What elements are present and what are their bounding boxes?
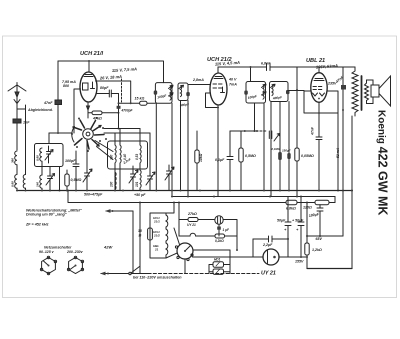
rail dots	[139, 202, 308, 204]
svg-text:UCH 21/I: UCH 21/I	[80, 51, 103, 57]
wire antenna to bus	[16, 188, 18, 190]
svg-text:65V: 65V	[316, 237, 323, 241]
gang dashed line	[121, 79, 123, 102]
UBL grid wire	[288, 90, 304, 92]
junction dot	[250, 66, 252, 68]
resistor 0.05M grid leak	[295, 90, 299, 197]
svg-text:90–125 v: 90–125 v	[39, 250, 55, 254]
svg-text:47nF: 47nF	[43, 101, 53, 105]
svg-text:26 V, 18 mA: 26 V, 18 mA	[99, 74, 122, 81]
svg-text:100pF: 100pF	[157, 93, 168, 99]
IF1 top lead	[163, 61, 165, 83]
tube UBL21 envelope	[311, 73, 327, 103]
capacitor 0.1uF	[227, 131, 233, 191]
svg-text:100pF: 100pF	[65, 159, 76, 163]
junction dot	[342, 109, 344, 111]
speaker wires	[367, 80, 374, 104]
UBL diode plates	[313, 93, 325, 96]
choke HD1	[213, 262, 224, 267]
svg-text:6,8kΩ: 6,8kΩ	[286, 207, 296, 211]
svg-text:+: +	[296, 227, 299, 232]
svg-text:42W: 42W	[103, 245, 113, 250]
resistor 27k	[188, 218, 215, 222]
junction dot	[337, 190, 339, 192]
IF1 cap blob	[154, 91, 158, 95]
svg-text:21: 21	[154, 248, 159, 252]
svg-text:UY 21: UY 21	[187, 223, 196, 227]
title Koenig 422 GW MK vertical	[376, 110, 390, 215]
electrolytic cap det x280	[278, 102, 282, 191]
junction dot	[254, 130, 256, 132]
capacitor 4700pF	[117, 106, 121, 109]
selector output wires	[193, 250, 254, 257]
svg-text:27kΩ: 27kΩ	[187, 212, 197, 216]
svg-text:800: 800	[63, 84, 69, 88]
page scan border	[3, 36, 397, 298]
svg-text:+: +	[284, 227, 287, 232]
IF1 coil with core arrows	[169, 85, 174, 100]
trimmer right of coils	[146, 133, 155, 191]
capacitor 1nF antenna	[13, 119, 21, 123]
junction dot	[287, 238, 289, 240]
heater chain bumps	[166, 213, 168, 258]
svg-text:0,53: 0,53	[135, 154, 139, 160]
UBL bottom lead	[318, 102, 320, 191]
input bandfilter box	[35, 144, 64, 167]
svg-text:+ 50µF: + 50µF	[292, 219, 304, 223]
heater diagonal 2	[174, 228, 180, 245]
svg-text:6,8nF: 6,8nF	[261, 62, 271, 66]
mains wire 2 with arrow and switch	[100, 267, 259, 276]
choke wires	[209, 250, 230, 274]
lower coil	[40, 175, 42, 191]
tube2 cathode	[221, 87, 225, 93]
Netzumschalter hexagon 90-125V	[40, 256, 56, 274]
osc resistor 1k	[195, 150, 199, 191]
svg-text:200–230v: 200–230v	[66, 250, 84, 254]
bus y196	[172, 196, 335, 198]
trimmer cap in box	[45, 146, 53, 163]
IF2a cap blob	[244, 91, 248, 95]
wire left drop x58	[57, 61, 59, 133]
right frame vertical x343 lower	[342, 191, 344, 237]
resistor 1.2k drop	[305, 203, 309, 269]
svg-text:150µF: 150µF	[282, 149, 291, 153]
output transformer secondary	[365, 83, 369, 101]
antenna coil L1	[15, 151, 17, 165]
junction dot	[256, 130, 258, 132]
capacitor 6.8nF	[267, 64, 271, 71]
svg-text:0,1µF: 0,1µF	[215, 158, 225, 162]
electrolytic 50uF a	[285, 197, 291, 240]
svg-text:2,2µF: 2,2µF	[262, 243, 273, 247]
switch to osc wires	[104, 129, 150, 134]
junction dots	[300, 235, 321, 258]
svg-text:400pF: 400pF	[272, 95, 284, 101]
junction dot	[244, 130, 246, 132]
tube1 anode	[84, 75, 93, 77]
65V line	[307, 235, 343, 237]
IF2a coil with arrows	[262, 84, 267, 99]
svg-text:1nF: 1nF	[23, 121, 30, 125]
UBL anode lead	[318, 67, 320, 73]
lower trimmer cap	[46, 167, 55, 191]
svg-text:0,05MΩ: 0,05MΩ	[301, 154, 314, 158]
tube1 cathode	[91, 82, 95, 89]
svg-text:0,80: 0,80	[11, 181, 15, 187]
svg-text:Netzumschalter: Netzumschalter	[44, 245, 72, 249]
padder trimmer cap	[129, 166, 138, 191]
svg-text:105V, 53mA: 105V, 53mA	[316, 63, 338, 70]
IF2b cap blob	[286, 90, 290, 94]
junction dot	[118, 112, 120, 114]
svg-text:115 V, 7,5 mA: 115 V, 7,5 mA	[112, 66, 138, 73]
svg-text:Drehung um 80° „lang“: Drehung um 80° „lang“	[26, 213, 67, 217]
svg-text:7mA: 7mA	[229, 83, 237, 87]
UBL box drop x338	[337, 113, 339, 191]
bus junction dots	[16, 190, 353, 192]
band switch rotor	[71, 117, 107, 152]
svg-text:ZF = 452 kHz: ZF = 452 kHz	[25, 223, 49, 227]
output transformer primary	[352, 67, 358, 116]
svg-text:bei 110–220V umzuschalten: bei 110–220V umzuschalten	[133, 276, 182, 280]
osc drop x197	[196, 131, 198, 150]
bus y196 dots	[171, 196, 302, 198]
resistor 0.5M det	[239, 131, 243, 191]
coil in box	[40, 148, 42, 175]
junction dot	[118, 128, 120, 130]
IF1b coil with arrows	[179, 85, 184, 96]
chassis bus y190	[17, 190, 352, 192]
screen wire y81	[96, 81, 131, 103]
svg-text:1 µF: 1 µF	[223, 228, 230, 232]
wire antenna mid	[16, 165, 18, 174]
rail y202.5 with series resistors	[68, 191, 335, 205]
svg-text:4700pF: 4700pF	[121, 109, 134, 113]
heater box frame	[150, 203, 174, 259]
grid wire to tube2	[188, 84, 211, 86]
junction dot	[296, 89, 298, 91]
svg-text:Abgleichkond.: Abgleichkond.	[27, 108, 53, 112]
IF1b cap blob	[186, 92, 190, 96]
svg-text:UY 21: UY 21	[261, 271, 276, 277]
heater diagonal to selector	[166, 253, 177, 258]
Abgleich tap with bar	[17, 105, 26, 113]
wire box top to switch	[49, 133, 72, 144]
svg-text:30: 30	[138, 229, 142, 233]
IF transformer II box B	[270, 82, 289, 102]
capacitor 47nF series	[55, 100, 62, 105]
primary bottom drop	[351, 116, 353, 269]
electrolytic 50uF cathode x289	[287, 102, 290, 191]
box right lead to bus	[59, 167, 61, 191]
tube2 bottom lead	[217, 105, 219, 197]
IF2a top lead	[250, 67, 252, 82]
IF2b coil with arrows	[271, 84, 276, 95]
tube2 anode lead	[217, 67, 219, 73]
tube UCH21/1 envelope	[80, 72, 97, 102]
tube1 grid box	[83, 83, 89, 90]
mains wire 1 with arrow	[105, 209, 133, 273]
junction dot	[59, 190, 61, 192]
rail B (6.8nF line)	[218, 66, 355, 68]
transformer core	[361, 76, 363, 110]
antenna coil L2	[15, 175, 17, 189]
bottom right corner	[307, 268, 352, 270]
AVC wire y131	[230, 130, 256, 132]
capacitor 80pF	[96, 90, 119, 97]
svg-text:80pF: 80pF	[100, 86, 109, 90]
dial lamp	[215, 216, 237, 250]
osc coil column 2	[120, 129, 121, 191]
tube1 left lead	[74, 89, 81, 133]
junction dot	[351, 190, 353, 192]
svg-text:500÷475pF: 500÷475pF	[84, 193, 103, 197]
svg-text:400pF: 400pF	[179, 102, 191, 108]
IF transformer I second box	[178, 83, 188, 101]
svg-text:40 V: 40 V	[228, 78, 237, 82]
rail B drop to UBL grid	[296, 67, 298, 90]
tube UCH21/2 envelope	[210, 73, 227, 105]
trimmer x169	[165, 165, 174, 191]
IF2a bottom leads	[255, 103, 265, 191]
UBL cathode dot	[318, 98, 320, 100]
rectifier tube UY21	[263, 249, 279, 265]
choke HD2	[213, 269, 224, 274]
svg-text:0,2kΩ: 0,2kΩ	[215, 239, 224, 243]
svg-text:0,1MΩ: 0,1MΩ	[272, 147, 281, 151]
capacitor 47nF tone x318	[316, 137, 322, 140]
svg-text:15 kΩ: 15 kΩ	[135, 97, 145, 101]
speaker cone	[379, 76, 391, 106]
svg-text:47nF: 47nF	[311, 126, 315, 136]
IF1b bottom leads	[181, 101, 189, 197]
capacitor 100pF switch	[73, 151, 79, 191]
UBL anode	[314, 79, 324, 81]
svg-text:380: 380	[109, 154, 113, 160]
switch left wire	[58, 132, 72, 134]
Netzumschalter hexagon 200-230V	[67, 256, 83, 273]
svg-text:HD1: HD1	[214, 258, 221, 262]
UBL cathode box	[304, 91, 338, 113]
svg-text:100pF: 100pF	[247, 94, 258, 100]
antenna symbol	[8, 83, 26, 151]
junction dot	[130, 102, 132, 104]
grid line x118.5	[118, 94, 120, 129]
tube2 lower box loop	[206, 93, 219, 108]
oscillator coil can box	[108, 141, 148, 169]
resistor 30ohm	[148, 228, 153, 240]
svg-text:115 V, 4,5 mA: 115 V, 4,5 mA	[215, 60, 241, 67]
mains drop x140	[139, 203, 141, 274]
svg-text:0,80: 0,80	[36, 155, 40, 161]
svg-text:140: 140	[36, 182, 40, 187]
heater stub x178	[178, 203, 180, 220]
osc coil column 1	[115, 133, 116, 191]
voltage selector disc	[175, 243, 193, 261]
svg-text:120Ω: 120Ω	[303, 206, 312, 210]
svg-text:+50 pF: +50 pF	[134, 193, 146, 197]
osc coil column 3	[140, 129, 141, 191]
UBL grid dashes	[313, 87, 322, 90]
gang trimmer left	[83, 141, 92, 191]
capacitor 22nF UY	[253, 236, 288, 257]
tube1 bottom lead with arrow	[87, 102, 90, 118]
tube2 grid dashes	[213, 84, 222, 88]
svg-text:10kΩ: 10kΩ	[199, 153, 203, 162]
junction dot	[88, 60, 90, 62]
volume pot trimmer	[269, 131, 279, 197]
plain drop x264	[263, 131, 265, 191]
UY21 heater bump row	[179, 220, 215, 237]
switch diagonal wires to osc coils	[95, 141, 113, 160]
svg-text:47kΩ: 47kΩ	[92, 117, 102, 121]
svg-text:100: 100	[109, 181, 113, 187]
IF transformer I box	[155, 83, 172, 104]
capacitor 1uF	[217, 224, 221, 236]
svg-text:0,5MΩ: 0,5MΩ	[245, 154, 256, 158]
tube2 anode	[214, 77, 223, 79]
junction dot	[118, 102, 120, 104]
svg-text:Koenig 422 GW MK: Koenig 422 GW MK	[376, 110, 390, 215]
svg-text:101: 101	[135, 181, 139, 187]
tone capacitor 47nF plate	[341, 67, 346, 191]
svg-text:21/1: 21/1	[153, 220, 160, 224]
svg-text:21/2: 21/2	[153, 234, 160, 238]
svg-text:2,8mA: 2,8mA	[192, 78, 204, 82]
coupling coil L3	[23, 113, 25, 191]
resistor 0.5M left	[65, 170, 69, 191]
svg-text:Ω: Ω	[138, 234, 142, 238]
top rail A	[58, 60, 163, 62]
IF1 bottom leads	[156, 103, 172, 196]
resistor 47k osc grid	[88, 111, 119, 115]
svg-text:1,2kΩ: 1,2kΩ	[312, 248, 322, 252]
svg-text:0,5MΩ: 0,5MΩ	[71, 178, 82, 182]
svg-text:100µF: 100µF	[308, 212, 320, 218]
svg-text:155V: 155V	[295, 260, 304, 264]
electrolytic 50uF b	[298, 197, 304, 258]
IF transformer II box A	[246, 82, 266, 104]
junction dot	[236, 249, 238, 251]
resistor 15k	[119, 101, 156, 105]
junction dot	[318, 112, 320, 114]
selector bottom drop	[184, 259, 186, 274]
osc coil lower left	[115, 172, 116, 190]
resistor 0.2k	[215, 234, 237, 238]
capacitor 100uF	[317, 205, 323, 236]
IF2b coil lead to pot	[270, 102, 272, 132]
rectifier line y255.5	[253, 256, 307, 258]
svg-text:380: 380	[11, 158, 15, 163]
junction dot x58	[57, 132, 59, 134]
speaker magnet	[371, 85, 379, 97]
junction dot	[217, 107, 219, 109]
svg-text:52 mA: 52 mA	[336, 147, 340, 158]
tube1 anode lead	[88, 61, 90, 72]
svg-text:50µF: 50µF	[277, 219, 286, 223]
